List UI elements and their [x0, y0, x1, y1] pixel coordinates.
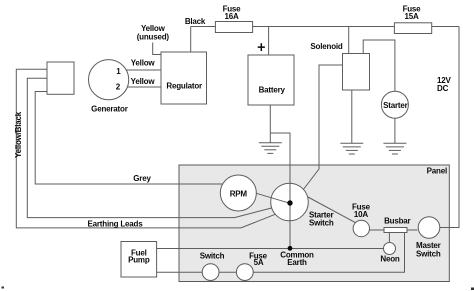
svg-text:Grey: Grey — [133, 174, 151, 183]
wire: starter motor to earth — [394, 118, 396, 143]
svg-text:Yellow: Yellow — [131, 58, 156, 67]
wire: battery to earth — [269, 105, 271, 143]
neon lamp — [384, 243, 396, 255]
svg-text:2: 2 — [116, 82, 121, 91]
wire: generator terminal 2 yellow — [127, 86, 161, 88]
svg-text:Yellow: Yellow — [131, 77, 156, 86]
svg-text:DC: DC — [437, 84, 449, 93]
node: starter switch common contact — [287, 200, 292, 205]
wire: top 12V bus — [191, 26, 459, 28]
wire: battery earth lead to starter switch and common earth — [270, 133, 290, 248]
starter switch — [271, 183, 309, 221]
svg-text:Solenoid: Solenoid — [310, 42, 342, 51]
busbar — [384, 228, 407, 233]
wire: yellow unused stub — [153, 43, 161, 55]
svg-text:Yellow/Black: Yellow/Black — [14, 111, 23, 158]
fuse F1 16A — [215, 22, 252, 33]
svg-text:Switch: Switch — [200, 251, 225, 260]
wire: busbar to neon — [388, 233, 390, 243]
svg-text:Switch: Switch — [416, 249, 441, 258]
RPM gauge — [220, 175, 256, 211]
wire: busbar to master switch — [407, 229, 417, 231]
wire: fuel pump supply rail through switch and fuse 5A to busbar — [157, 233, 405, 273]
fuse F2 15A — [394, 23, 431, 34]
wire: solenoid to starter switch — [303, 65, 343, 190]
fuse F4 5A — [236, 264, 253, 281]
switch S1 — [202, 264, 219, 281]
artifact mark bottom left — [2, 287, 5, 289]
artifact mark bottom right — [471, 288, 474, 291]
wire: grey lead to RPM gauge — [35, 92, 223, 185]
svg-text:(unused): (unused) — [137, 33, 170, 42]
svg-text:Busbar: Busbar — [384, 216, 410, 225]
connector box — [47, 62, 74, 94]
starter motor M1 — [381, 91, 408, 118]
svg-text:10A: 10A — [354, 210, 368, 219]
svg-text:Generator: Generator — [91, 104, 128, 113]
svg-text:Neon: Neon — [380, 254, 400, 263]
wire: earthing lead from connector box to starter switch — [16, 69, 275, 228]
wire: battery positive tap — [268, 27, 270, 56]
panel enclosure — [179, 165, 449, 282]
wire: solenoid to earth — [351, 90, 353, 143]
wire: black lead regulator to bus — [190, 27, 192, 53]
fuse F3 10A — [353, 220, 369, 236]
wire: fuse 10A to busbar — [369, 229, 384, 231]
fuel pump — [121, 242, 157, 278]
wire: starter switch to fuse 10A — [307, 197, 356, 223]
wire: RPM gauge to starter switch contact — [256, 193, 290, 203]
svg-text:Earthing Leads: Earthing Leads — [88, 220, 144, 229]
ground: battery earth symbol — [259, 143, 282, 154]
node: common earth junction — [288, 246, 293, 251]
wire: fuel pump to common earth rail — [157, 248, 384, 250]
solenoid — [343, 54, 370, 91]
svg-text:Switch: Switch — [309, 219, 334, 228]
generator G1 — [89, 60, 129, 100]
regulator U1 — [161, 52, 207, 104]
svg-text:RPM: RPM — [230, 189, 248, 198]
svg-text:16A: 16A — [224, 12, 238, 21]
master switch — [418, 217, 440, 239]
wire: solenoid to starter motor link — [363, 40, 395, 91]
wire: right 12V rail down to master switch — [439, 27, 459, 228]
svg-text:Panel: Panel — [427, 167, 447, 176]
ground: solenoid earth symbol — [340, 143, 363, 154]
wire: lead from connector box to starter switch — [27, 78, 271, 217]
svg-text:5A: 5A — [254, 258, 264, 267]
svg-text:15A: 15A — [404, 12, 418, 21]
svg-text:Regulator: Regulator — [166, 81, 202, 90]
svg-text:Battery: Battery — [259, 86, 286, 95]
svg-text:Starter: Starter — [383, 101, 407, 110]
wire: generator terminal 1 yellow — [126, 69, 161, 71]
svg-text:Earth: Earth — [287, 258, 307, 267]
svg-text:Pump: Pump — [128, 256, 150, 265]
wire: solenoid feed tap — [348, 27, 350, 54]
svg-text:Black: Black — [185, 17, 206, 26]
svg-text:1: 1 — [116, 67, 121, 76]
ground: starter earth symbol — [383, 143, 406, 154]
battery BT1 — [248, 55, 294, 105]
label: battery plus — [258, 43, 265, 51]
